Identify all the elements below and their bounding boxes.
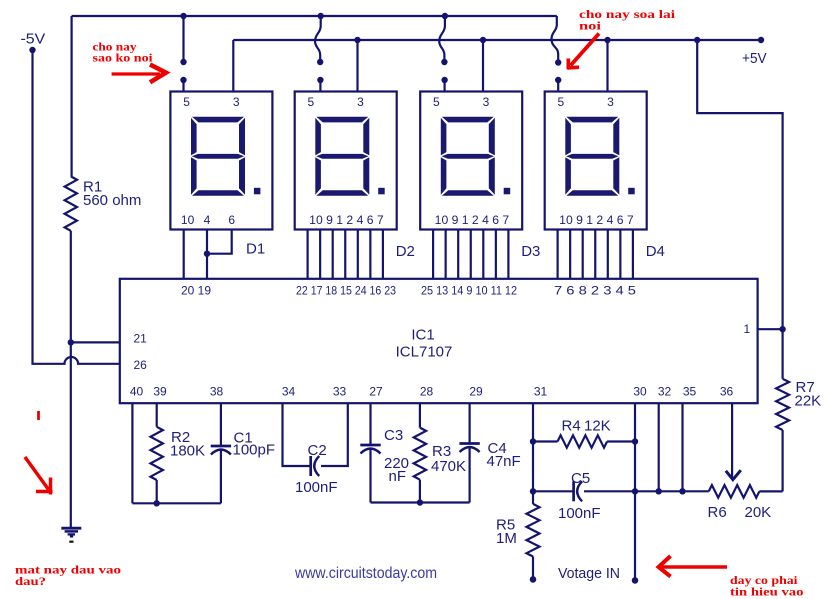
wire rail1 left corner down to R1 <box>70 16 72 176</box>
svg-text:39: 39 <box>153 385 167 399</box>
wire D2 pin column 1 to IC <box>307 230 309 279</box>
svg-text:3: 3 <box>483 95 490 109</box>
svg-text:31: 31 <box>534 385 548 399</box>
wire D2 pin column 2 to IC <box>319 230 321 279</box>
wire D3 pin column 3 to IC <box>457 230 459 279</box>
node D1 gap dot upper <box>180 59 186 65</box>
svg-text:21: 21 <box>134 332 148 346</box>
capacitor C5 <box>572 481 575 501</box>
svg-text:1: 1 <box>744 322 751 336</box>
svg-text:+5V: +5V <box>742 50 767 67</box>
resistor R7 <box>776 379 789 430</box>
node junction pin21 left <box>68 339 74 345</box>
svg-text:C3: C3 <box>384 427 403 444</box>
node junction rail1 above D3 <box>442 13 448 19</box>
svg-text:28: 28 <box>420 385 434 399</box>
wire top rail 1 <box>72 15 557 17</box>
svg-text:38: 38 <box>210 385 224 399</box>
node pin31/R4 junction <box>530 438 536 444</box>
wire D2 pin column 5 to IC <box>357 230 359 279</box>
node pin30/R4 junction <box>632 438 638 444</box>
wire D3 pin3 riser <box>482 40 484 92</box>
svg-text:6: 6 <box>228 213 235 227</box>
wire C5 rail right to R6 <box>584 490 709 492</box>
svg-text:5: 5 <box>433 95 440 109</box>
digit 8 of D2 <box>315 117 369 196</box>
wire D2 pin column 6 to IC <box>369 230 371 279</box>
node junction rail2 above D4 pin3 <box>604 37 610 43</box>
node junction pin1 <box>779 326 785 332</box>
node junction rail2 above D2 pin3 <box>354 37 360 43</box>
svg-text:470K: 470K <box>431 458 466 475</box>
wire R2 to rail <box>156 480 158 503</box>
node D2 gap dot lower <box>317 77 323 83</box>
annotation arrow to ground area <box>25 457 49 490</box>
IC IC1 ICL7107 box <box>120 279 758 403</box>
digit 8 of D3 <box>441 117 495 196</box>
node +5V terminal dot <box>758 37 764 43</box>
annotation arrow voltage in <box>662 565 727 569</box>
7-segment display D1 box <box>170 92 272 230</box>
resistor R1 <box>65 176 77 230</box>
wire IC pin1 stub <box>758 328 783 330</box>
wire R2/C1 bottom rail <box>132 502 221 504</box>
svg-text:20K: 20K <box>745 504 772 521</box>
node pin32 junction <box>656 488 662 494</box>
svg-text:22K: 22K <box>795 393 822 410</box>
wire R6 to right riser <box>759 490 782 492</box>
ground symbol <box>61 527 81 530</box>
svg-text:dau?: dau? <box>15 574 46 588</box>
node junction rail2 above D3 pin3 <box>480 37 486 43</box>
svg-text:22 17 18 15 24 16 23: 22 17 18 15 24 16 23 <box>296 284 396 298</box>
node junction rail1 above D2 <box>318 13 324 19</box>
wire R1 down to ground <box>70 231 72 528</box>
wire D2 pin column 3 to IC <box>332 230 334 279</box>
wire IC pin36 down to wiper <box>731 403 733 478</box>
node D4 gap dot upper <box>555 59 561 65</box>
wire D4 pin column 5 to IC <box>607 230 609 279</box>
svg-text:47nF: 47nF <box>487 453 521 470</box>
wire D4 pin column 3 to IC <box>582 230 584 279</box>
wire D4 pin column 2 to IC <box>569 230 571 279</box>
node pin35 junction <box>679 488 685 494</box>
wire IC pin32 down <box>658 403 660 491</box>
wire left line from -5V to IC pin 26 with hop <box>33 50 120 364</box>
node D2 gap dot upper <box>317 59 323 65</box>
wire D3 pin5 stub <box>444 80 446 92</box>
wire IC pin28 down to R3 <box>419 403 421 428</box>
wire D3 pin column 7 to IC <box>507 230 509 279</box>
resistor R2 <box>151 427 163 480</box>
potentiometer wiper arrow of R6 <box>726 470 741 479</box>
wire D3 pin column 4 to IC <box>470 230 472 279</box>
svg-text:sao ko noi: sao ko noi <box>93 51 154 65</box>
wire IC pin31 down <box>532 403 534 491</box>
wire D4 pin3 riser <box>606 40 608 92</box>
wire D4 pin column 4 to IC <box>594 230 596 279</box>
wire D4 pin5 squiggle from rail1 corner <box>552 16 559 61</box>
wire D3 pin5 squiggle <box>439 16 445 61</box>
svg-text:25 13 14 9 10 11 12: 25 13 14 9 10 11 12 <box>421 284 517 298</box>
7-segment display D2 box <box>295 92 397 230</box>
svg-text:35: 35 <box>683 385 697 399</box>
wire D1 pin5 stub <box>182 80 184 92</box>
wire D2 pin3 riser <box>356 40 358 92</box>
wire IC pin27 down to C3 <box>369 403 371 445</box>
node -5V terminal dot <box>29 47 35 53</box>
wire D2 pin column 7 to IC <box>382 230 384 279</box>
svg-text:D3: D3 <box>521 243 540 260</box>
wire top rail 2 (+5V rail) <box>233 39 761 41</box>
svg-text:R6: R6 <box>708 504 727 521</box>
wire IC pin39 down to R2 <box>156 403 158 427</box>
wire C2 to pin33 <box>321 403 348 466</box>
svg-text:12K: 12K <box>584 418 611 435</box>
node Votage IN terminal <box>632 577 639 584</box>
node D1 pin4/6 junction <box>204 251 210 257</box>
svg-text:36: 36 <box>720 385 734 399</box>
node junction rail2 right drop <box>694 37 700 43</box>
svg-text:3: 3 <box>607 95 614 109</box>
wire D3 pin column 1 to IC <box>432 230 434 279</box>
svg-text:10: 10 <box>181 213 195 227</box>
annotation red tick left <box>37 411 40 420</box>
svg-text:32: 32 <box>658 385 672 399</box>
svg-text:noi: noi <box>579 19 602 33</box>
svg-text:20 19: 20 19 <box>181 284 211 298</box>
7-segment display D3 box <box>420 92 522 230</box>
wire IC pin38 down to C1 <box>220 403 222 446</box>
node D4 gap dot lower <box>555 77 561 83</box>
decimal point of D3 <box>504 188 511 195</box>
svg-text:D2: D2 <box>396 243 415 260</box>
node D1 gap dot lower <box>180 77 186 83</box>
wire R3 to rail <box>419 480 421 503</box>
svg-text:100nF: 100nF <box>295 479 338 496</box>
svg-text:4: 4 <box>204 213 211 227</box>
resistor R5 <box>532 491 534 504</box>
node pin30/C5 junction <box>632 488 638 494</box>
svg-text:100pF: 100pF <box>233 442 276 459</box>
node junction rail1 above D1 <box>180 13 186 19</box>
svg-text:180K: 180K <box>170 443 205 460</box>
wire D2 pin5 stub <box>319 80 321 92</box>
svg-text:5: 5 <box>558 95 565 109</box>
svg-text:27: 27 <box>369 385 383 399</box>
node R3 bottom junction <box>417 499 423 505</box>
svg-text:100nF: 100nF <box>558 505 601 522</box>
svg-text:3: 3 <box>357 95 364 109</box>
wire D4 pin column 6 to IC <box>619 230 621 279</box>
svg-text:nF: nF <box>389 468 407 485</box>
wire D1 pin10 to IC pin20 <box>183 230 185 279</box>
wire +5V drop to right riser <box>697 40 782 379</box>
wire IC pin34 down to C2 <box>283 403 311 466</box>
wire D3 pin column 2 to IC <box>445 230 447 279</box>
svg-text:33: 33 <box>333 385 347 399</box>
svg-text:tin hieu vao: tin hieu vao <box>730 585 804 599</box>
wire pin21 stub <box>71 341 120 343</box>
wire IC pin35 down <box>681 403 683 491</box>
resistor R6 pot body <box>709 485 760 498</box>
wire D3 pin column 5 to IC <box>482 230 484 279</box>
annotation arrow to D1 gap <box>112 72 160 75</box>
capacitor C4 <box>459 442 479 445</box>
annotation arrow to D4 gap <box>571 34 600 66</box>
svg-text:1M: 1M <box>496 530 517 547</box>
svg-text:Votage IN: Votage IN <box>558 565 620 582</box>
svg-text:10 9 1 2 4 6 7: 10 9 1 2 4 6 7 <box>309 213 384 227</box>
svg-text:ICL7107: ICL7107 <box>396 344 453 361</box>
node pin31/C5 junction <box>530 488 536 494</box>
svg-text:40: 40 <box>130 385 144 399</box>
svg-text:560 ohm: 560 ohm <box>83 192 141 209</box>
svg-text:7 6 8 2 3 4 5: 7 6 8 2 3 4 5 <box>554 284 636 298</box>
capacitor C3 <box>360 444 380 447</box>
node D3 gap dot upper <box>441 59 447 65</box>
decimal point of D4 <box>628 188 635 195</box>
resistor R3 <box>414 428 426 480</box>
node D3 gap dot lower <box>441 77 447 83</box>
svg-text:3: 3 <box>233 95 240 109</box>
decimal point of D2 <box>378 188 385 195</box>
wire D1 pin4 to IC pin19 <box>206 230 208 279</box>
wire C3 down <box>369 448 371 503</box>
wire D2 pin column 4 to IC <box>344 230 346 279</box>
svg-text:R4: R4 <box>562 418 581 435</box>
svg-text:D4: D4 <box>646 243 665 260</box>
svg-text:26: 26 <box>134 358 148 372</box>
capacitor C1 <box>211 445 231 448</box>
decimal point of D1 <box>254 188 261 195</box>
svg-text:www.circuitstoday.com: www.circuitstoday.com <box>294 565 437 582</box>
wire IC pin40 down <box>131 403 133 503</box>
wire C1 down <box>220 449 222 503</box>
wire C4 down <box>469 447 471 503</box>
svg-text:30: 30 <box>633 385 647 399</box>
svg-text:IC1: IC1 <box>411 327 434 344</box>
wire IC pin30 down to Votage IN terminal <box>634 403 636 580</box>
wire D1 pin6 joins pin4 <box>207 230 232 254</box>
digit 8 of D1 <box>191 117 245 196</box>
wire D1 pin5 drop <box>182 16 184 62</box>
wire D3 pin column 6 to IC <box>495 230 497 279</box>
wire C5 rail left <box>533 490 574 492</box>
wire IC pin29 down to C4 <box>469 403 471 444</box>
wire D2 pin5 squiggle <box>315 16 321 61</box>
svg-text:34: 34 <box>282 385 296 399</box>
svg-text:D1: D1 <box>246 241 265 258</box>
node R5 bottom terminal <box>530 576 537 583</box>
svg-text:5: 5 <box>183 95 190 109</box>
resistor R4 <box>533 440 558 442</box>
svg-text:5: 5 <box>308 95 315 109</box>
svg-text:29: 29 <box>469 385 483 399</box>
wire R7 down to R6 corner <box>781 430 783 491</box>
digit 8 of D4 <box>565 117 619 196</box>
svg-text:10 9 1 2 4 6 7: 10 9 1 2 4 6 7 <box>435 213 510 227</box>
wire D4 pin column 7 to IC <box>632 230 634 279</box>
svg-text:10 9 1 2 4 6 7: 10 9 1 2 4 6 7 <box>559 213 634 227</box>
svg-text:C2: C2 <box>308 442 327 459</box>
wire D4 pin column 1 to IC <box>556 230 558 279</box>
svg-text:-5V: -5V <box>21 31 46 48</box>
7-segment display D4 box <box>545 92 647 230</box>
node R2 bottom junction <box>154 500 160 506</box>
wire D4 pin5 stub <box>557 80 559 92</box>
capacitor C2 <box>309 456 312 476</box>
wire D1 pin3 riser <box>232 40 234 92</box>
svg-text:C5: C5 <box>571 470 590 487</box>
wire C3/R3/C4 bottom rail <box>371 501 470 503</box>
